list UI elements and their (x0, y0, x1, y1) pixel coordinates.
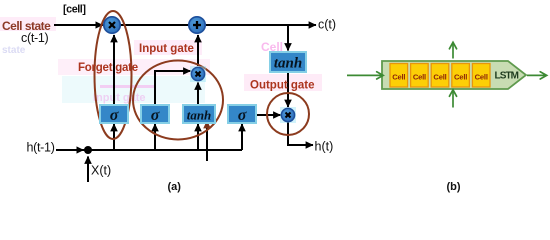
svg-text:Cell: Cell (413, 73, 426, 82)
svg-text:σ: σ (151, 107, 160, 124)
forget gate ellipse (95, 11, 132, 139)
wire sigma3 to M3 (256, 114, 281, 116)
cell box B5 (472, 64, 490, 88)
LSTM arrow pentagon (382, 61, 526, 89)
svg-text:c(t): c(t) (318, 18, 336, 32)
svg-text:Input gate: Input gate (139, 43, 194, 55)
wire sigma1 up to M1 (113, 35, 115, 106)
wire branch down to tanh2 (287, 26, 289, 51)
ghost pink tint behind Input gate label (134, 40, 202, 55)
multiply node M1 (104, 17, 120, 33)
sigma box S1 (100, 105, 128, 124)
multiply node M3 (280, 107, 296, 123)
wire up into sigma3 (241, 124, 243, 150)
wire M3 down right to h(t) (288, 122, 313, 146)
green arrow up top (452, 43, 454, 59)
arrowhead into multiply node M1 (96, 21, 104, 28)
svg-text:h(t-1): h(t-1) (27, 141, 55, 155)
svg-text:σ: σ (238, 107, 247, 124)
ghost cyan band (62, 76, 205, 103)
svg-text:Cell: Cell (454, 73, 467, 82)
svg-text:Output gate: Output gate (250, 80, 315, 92)
wire top cell-state line (54, 24, 316, 26)
wire second input into tanh1 (206, 121, 208, 161)
svg-text:Cell: Cell (433, 73, 446, 82)
wire sigma2 elbow to M2 (155, 71, 191, 106)
svg-text:X(t): X(t) (91, 164, 111, 178)
wire tanh1 up to M2 (197, 83, 199, 107)
svg-text:Input gate: Input gate (93, 92, 146, 104)
cell box B1 (390, 64, 408, 88)
wire up into sigma1 (113, 124, 115, 150)
ghost pink tint behind Forget gate row (58, 59, 210, 75)
sigma box S3 (228, 105, 256, 124)
svg-text:Cell: Cell (475, 73, 488, 82)
wire tanh2 down to M3 (287, 72, 289, 107)
sigma box S2 (141, 105, 169, 124)
svg-text:tanh: tanh (274, 56, 302, 72)
cell box B4 (452, 64, 470, 88)
svg-text:σ: σ (110, 107, 119, 124)
ghost pink tint behind Output gate (244, 74, 322, 91)
multiply node M2 (190, 66, 206, 82)
junction dot (84, 146, 92, 154)
svg-text:Cell: Cell (392, 73, 405, 82)
wire up into sigma2 (154, 124, 156, 150)
svg-text:LSTM: LSTM (495, 71, 519, 82)
tanh box T1 (183, 105, 215, 123)
svg-text:state: state (2, 45, 26, 56)
green arrow in left (347, 74, 383, 76)
svg-text:Forget gate: Forget gate (78, 62, 138, 74)
svg-text:c(t-1): c(t-1) (21, 31, 49, 45)
wire X(t) up to junction (87, 157, 89, 183)
output gate circle (267, 93, 309, 135)
svg-text:(a): (a) (168, 181, 182, 193)
tanh box T2 (270, 52, 306, 72)
svg-text:[cell]: [cell] (63, 4, 86, 16)
input gate ellipse (133, 61, 223, 140)
svg-text:h(t): h(t) (315, 140, 334, 154)
green arrow up bottom (452, 90, 454, 108)
arrowhead into junction dot (77, 146, 85, 153)
ghost pink tint behind Cell state label (0, 17, 56, 31)
wire bottom h line (56, 149, 242, 151)
ghost pink dashes (100, 85, 154, 88)
cell box B3 (431, 64, 449, 88)
svg-text:(b): (b) (447, 181, 461, 193)
wire M2 up to plus node (197, 35, 199, 66)
green arrow out right (527, 74, 547, 76)
wire up into tanh1 (197, 124, 199, 150)
plus node P1 (189, 17, 205, 33)
svg-text:tanh: tanh (187, 108, 212, 123)
cell box B2 (411, 64, 429, 88)
